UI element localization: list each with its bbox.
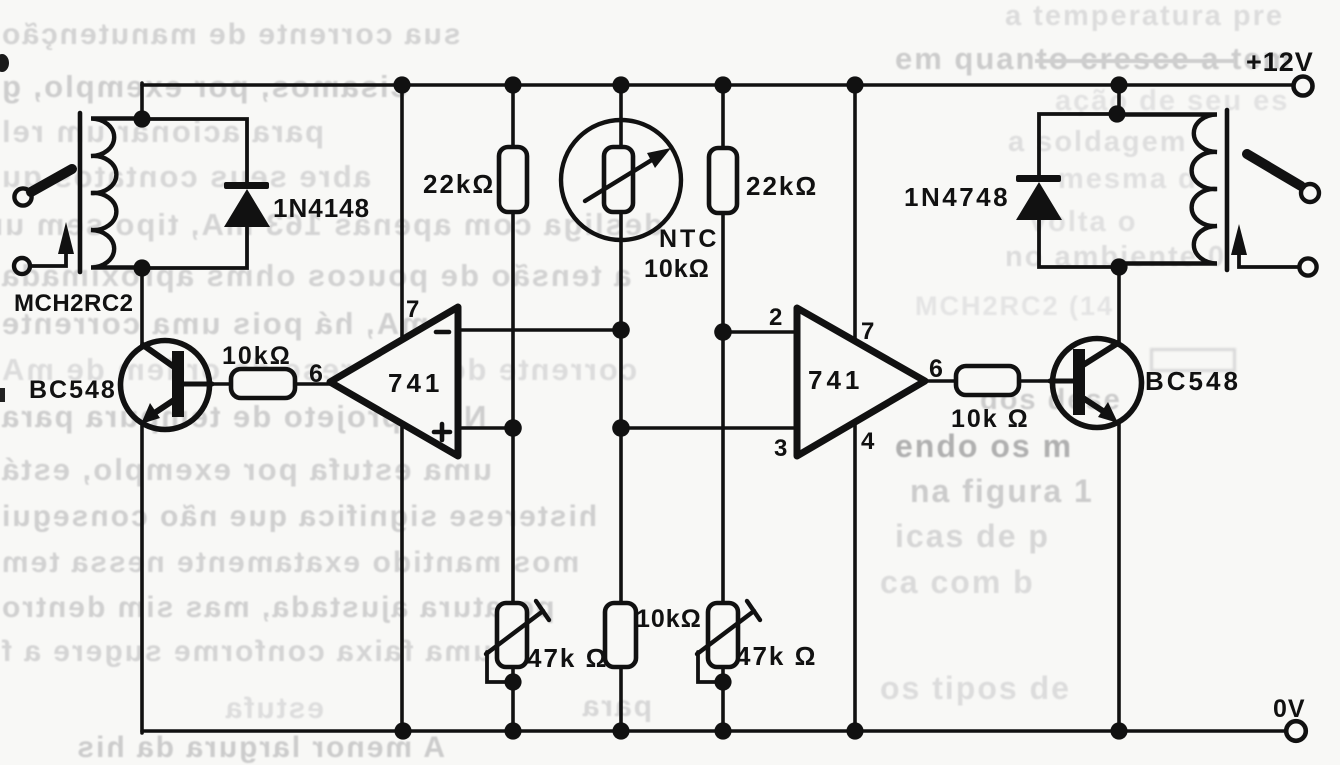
- transistor Q1 collector lead: [143, 345, 177, 369]
- wire 22k left branch: [511, 85, 515, 603]
- trimpot 47k right arrow: [697, 601, 760, 654]
- resistor 10k left (base): [231, 369, 295, 398]
- junction dot top rail x723: [714, 76, 731, 93]
- wire bottom 0V rail: [142, 729, 1285, 733]
- wire U1 inverting input to NTC node: [458, 328, 621, 332]
- transistor Q1 base lead: [184, 382, 212, 387]
- resistor 22k left: [499, 147, 527, 212]
- wire U2 output to resistor: [923, 379, 957, 383]
- transistor Q2 emitter lead: [1080, 396, 1106, 413]
- svg-text:+12V: +12V: [1246, 47, 1314, 77]
- junction dot bottom rail x513: [504, 722, 521, 739]
- ghost text line right column: [1030, 206, 1137, 239]
- svg-text:2: 2: [769, 304, 782, 331]
- ghost text line right column: [1055, 85, 1289, 118]
- diode D1 1N4148 loop wire: [142, 119, 247, 268]
- ghost text line (show-through, mirrored): [0, 258, 660, 294]
- junction dot top rail x621: [612, 76, 629, 93]
- ghost underline right column: [1035, 59, 1235, 63]
- terminal +12V: [1294, 77, 1313, 96]
- trimpot 47k right wiper wire: [698, 652, 723, 682]
- wire NTC branch: [619, 85, 623, 603]
- svg-text:BC548: BC548: [29, 376, 117, 404]
- junction dot wiper left: [504, 673, 521, 690]
- relay K2 actuation arrow: [1231, 224, 1247, 255]
- wire 22k right branch: [721, 85, 725, 603]
- transistor Q1 emitter arrow: [141, 403, 160, 424]
- transistor Q2 base lead: [1050, 379, 1073, 384]
- svg-text:3: 3: [774, 435, 787, 462]
- resistor 10k right (base): [956, 366, 1019, 395]
- ghost text line right column: [895, 41, 1292, 77]
- ghost text line (show-through, mirrored): [0, 18, 642, 52]
- op-amp U1 plus sign: [434, 424, 450, 440]
- op-amp U2 741 triangle: [797, 308, 925, 456]
- ghost text line right column: [1005, 241, 1226, 274]
- ghost text line (show-through, mirrored): [0, 207, 663, 243]
- svg-text:6: 6: [929, 355, 943, 383]
- ghost text line (show-through, mirrored): [100, 731, 445, 765]
- junction dot bottom rail x621: [612, 722, 629, 739]
- ghost text line (show-through, mirrored): [0, 452, 657, 488]
- svg-text:741: 741: [808, 365, 863, 395]
- diode D2 1N4748 symbol: [1016, 175, 1062, 220]
- wire left relay coil bottom to transistor collector: [140, 268, 144, 345]
- junction dot top rail x855: [846, 76, 863, 93]
- svg-text:10kΩ: 10kΩ: [636, 605, 702, 633]
- ghost text line (show-through, mirrored): [0, 352, 660, 388]
- svg-text:MCH2RC2: MCH2RC2: [14, 290, 134, 317]
- wire op-amp U2 supply vertical: [853, 85, 857, 731]
- transistor Q1 emitter lead: [153, 398, 177, 414]
- trimpot 47k left wiper wire: [487, 652, 513, 682]
- junction dot top rail x1119: [1110, 76, 1127, 93]
- wire top +12V rail: [142, 83, 1293, 87]
- ghost text line right column: [910, 473, 1094, 510]
- svg-text:7: 7: [406, 296, 419, 323]
- trimpot 47k left body: [497, 603, 527, 667]
- transistor Q2 BC548 circle: [1053, 339, 1142, 428]
- diode D1 1N4148 symbol: [224, 182, 270, 227]
- svg-text:6: 6: [309, 360, 323, 388]
- transistor Q1 BC548 circle: [121, 341, 210, 430]
- ghost text line right column: [880, 564, 1035, 601]
- svg-text:BC548: BC548: [1145, 366, 1241, 396]
- wire NTC branch lower: [619, 667, 623, 731]
- wire U1 non-inverting input to 22k left node: [458, 426, 513, 430]
- ghost text line right column: [915, 291, 1114, 322]
- ghost rect right column: [1150, 348, 1236, 372]
- relay K1 lower contact wire: [31, 252, 66, 266]
- ghost text line (show-through, mirrored): [0, 546, 665, 580]
- svg-text:22kΩ: 22kΩ: [746, 171, 818, 201]
- wire left branch top (rail to relay coil): [140, 83, 144, 120]
- svg-text:7: 7: [861, 318, 874, 345]
- thermistor NTC body: [604, 147, 633, 212]
- wire right relay coil bottom to transistor collector: [1117, 267, 1121, 345]
- ghost text line right column: [1005, 0, 1284, 33]
- relay K2 lower contact circle: [1299, 258, 1316, 275]
- wire right transistor emitter to bottom rail: [1117, 423, 1121, 733]
- relay K2 contact lever: [1247, 154, 1301, 186]
- ghost text line (show-through, mirrored): [0, 114, 662, 150]
- junction dot NTC node lower: [612, 419, 630, 437]
- ghost text line (show-through, mirrored): [0, 69, 660, 105]
- relay coil K2: [1117, 114, 1217, 263]
- resistor 10k bottom middle: [605, 603, 636, 667]
- ghost text line (show-through, mirrored): [0, 159, 660, 195]
- trimpot 47k left arrow: [486, 601, 549, 654]
- ghost text line (show-through, mirrored): [0, 635, 658, 669]
- relay K2 upper contact circle: [1301, 184, 1319, 202]
- relay K1 lower contact circle: [14, 258, 30, 274]
- terminal 0V: [1286, 721, 1306, 741]
- transistor Q2 collector lead: [1080, 343, 1118, 367]
- relay K2 lower contact wire: [1239, 252, 1299, 267]
- junction dot top rail x513: [504, 76, 521, 93]
- ghost text fragment (mirrored): [592, 690, 652, 724]
- svg-text:4: 4: [861, 428, 875, 455]
- ghost text line right column: [895, 428, 1073, 465]
- junction dot bottom rail x1119: [1110, 722, 1127, 739]
- ghost text line (show-through, mirrored): [0, 399, 692, 435]
- ghost text line right column: [895, 518, 1050, 555]
- ghost text line right column: [1058, 163, 1198, 196]
- junction dot coil K1 bottom: [133, 259, 150, 276]
- junction dot bottom rail x403: [394, 722, 411, 739]
- svg-text:47k Ω: 47k Ω: [736, 641, 817, 671]
- svg-text:10kΩ: 10kΩ: [644, 255, 710, 283]
- diode D2 1N4748 loop wire: [1039, 114, 1119, 267]
- wire left transistor emitter to bottom rail: [140, 423, 144, 733]
- junction dot coil K2 bottom: [1110, 258, 1127, 275]
- svg-text:10k Ω: 10k Ω: [951, 405, 1030, 433]
- op-amp U1 minus sign: [436, 330, 449, 335]
- wire 22k left branch lower: [511, 667, 515, 731]
- thermistor NTC arrow: [585, 148, 671, 201]
- relay coil K1: [91, 119, 142, 268]
- svg-text:1N4748: 1N4748: [904, 182, 1010, 212]
- ghost text fragment (mirrored): [184, 692, 324, 726]
- transistor Q2 base bar: [1073, 349, 1085, 415]
- junction dot bottom rail x723: [714, 722, 731, 739]
- junction dot NTC node upper: [612, 321, 630, 339]
- wire U1 output to resistor: [296, 382, 332, 386]
- svg-text:47k Ω: 47k Ω: [527, 643, 608, 673]
- relay K1 core bar: [78, 113, 83, 272]
- relay K2 core bar: [1225, 110, 1230, 270]
- svg-text:0V: 0V: [1273, 695, 1306, 723]
- wire resistor to Q2 base: [1018, 379, 1052, 383]
- relay K1 actuation arrow: [58, 222, 74, 254]
- transistor Q2 emitter arrow: [1098, 402, 1118, 423]
- wire U2 pin3 to NTC node: [621, 426, 797, 430]
- ghost text line (show-through, mirrored): [0, 306, 655, 342]
- junction dot bottom rail x855: [846, 722, 863, 739]
- junction dot 22k right node: [714, 323, 732, 341]
- page edge mark upper left: [0, 54, 9, 72]
- svg-text:741: 741: [388, 368, 443, 398]
- svg-text:NTC: NTC: [659, 225, 719, 253]
- wire U2 pin2 to 22k right node: [723, 330, 797, 334]
- resistor 22k right: [709, 148, 737, 213]
- svg-text:1N4148: 1N4148: [273, 193, 370, 223]
- junction dot wiper right: [714, 673, 731, 690]
- svg-text:22kΩ: 22kΩ: [423, 169, 495, 199]
- wire op-amp U1 supply vertical: [400, 85, 404, 731]
- trimpot 47k right body: [708, 603, 738, 667]
- ghost text fragment right column: [980, 384, 1122, 417]
- svg-text:10kΩ: 10kΩ: [222, 342, 292, 370]
- wire right relay branch top: [1117, 83, 1121, 115]
- junction dot 22k left node: [504, 419, 522, 437]
- wire 22k right branch lower: [721, 667, 725, 731]
- ghost text line right column: [1008, 126, 1188, 159]
- page edge mark mid left: [0, 388, 5, 402]
- ghost text line (show-through, mirrored): [0, 500, 660, 534]
- junction dot top rail x402: [393, 76, 410, 93]
- relay K1 upper contact circle: [14, 188, 31, 205]
- op-amp U1 741 triangle: [330, 307, 458, 456]
- transistor Q1 base bar: [172, 351, 184, 417]
- junction dot coil K1 top: [133, 110, 150, 127]
- relay K1 contact lever: [31, 169, 72, 192]
- ghost text line right column: [880, 670, 1071, 707]
- ghost text line (show-through, mirrored): [0, 591, 662, 625]
- thermistor NTC circle: [561, 120, 681, 240]
- wire resistor to Q1 base: [210, 382, 232, 386]
- junction dot coil K2 top: [1108, 105, 1125, 122]
